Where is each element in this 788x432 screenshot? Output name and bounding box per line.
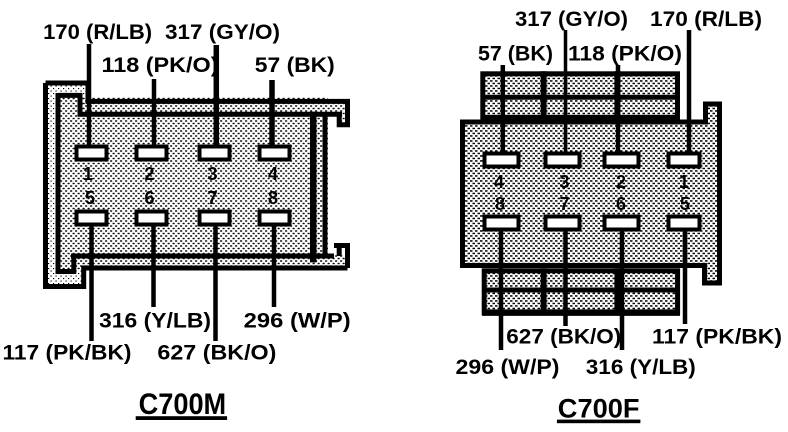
pin 1 (C700F) bbox=[669, 154, 700, 167]
pin 3 (C700F) bbox=[546, 154, 580, 167]
pin 4 (C700F) bbox=[485, 154, 519, 167]
wire pin 7 to 627 (BK/O) (C700F) bbox=[563, 230, 568, 326]
svg-text:2: 2 bbox=[616, 172, 626, 192]
pin 8 (C700F) bbox=[485, 217, 519, 230]
wire 118 (PK/O) to pin 2 bbox=[152, 79, 157, 147]
svg-text:316 (Y/LB): 316 (Y/LB) bbox=[99, 310, 211, 333]
wire pin 8 to 296 (W/P) (C700F) bbox=[499, 230, 504, 350]
wire 57 (BK) to pin 4 bbox=[269, 80, 275, 147]
svg-text:4: 4 bbox=[268, 164, 278, 184]
svg-text:4: 4 bbox=[494, 172, 504, 192]
pin 1 (C700M) bbox=[77, 147, 107, 160]
svg-text:1: 1 bbox=[679, 172, 689, 192]
pin 8 (C700M) bbox=[260, 212, 290, 225]
svg-text:5: 5 bbox=[85, 188, 95, 208]
svg-text:8: 8 bbox=[268, 188, 278, 208]
svg-text:5: 5 bbox=[680, 194, 690, 214]
wire pin 5 to 117 (PK/BK) bbox=[89, 225, 94, 341]
wire 118 (PK/O) to pin 2 (C700F) bbox=[616, 65, 621, 153]
pin 7 (C700F) bbox=[546, 217, 580, 230]
svg-text:1: 1 bbox=[83, 164, 93, 184]
wire pin 8 to 296 (W/P) bbox=[272, 225, 277, 307]
svg-text:2: 2 bbox=[144, 164, 154, 184]
svg-text:316 (Y/LB): 316 (Y/LB) bbox=[586, 356, 696, 379]
svg-text:7: 7 bbox=[559, 194, 569, 214]
pin 2 (C700F) bbox=[605, 154, 639, 167]
svg-text:627 (BK/O): 627 (BK/O) bbox=[157, 342, 276, 365]
wire pin 7 to 627 (BK/O) bbox=[213, 225, 218, 341]
svg-text:296 (W/P): 296 (W/P) bbox=[456, 356, 560, 379]
pin 6 (C700F) bbox=[605, 217, 639, 230]
connector C700F body with lock tab bbox=[463, 104, 720, 283]
svg-text:8: 8 bbox=[495, 194, 505, 214]
pin 2 (C700M) bbox=[137, 147, 167, 160]
wire 57 (BK) to pin 4 (C700F) bbox=[501, 65, 506, 153]
pin 3 (C700M) bbox=[200, 147, 230, 160]
svg-text:170 (R/LB): 170 (R/LB) bbox=[650, 8, 762, 31]
svg-text:57 (BK): 57 (BK) bbox=[255, 54, 335, 77]
connector C700M outer shell bbox=[45, 83, 348, 287]
connector C700F rear grid top bbox=[483, 71, 678, 120]
wire 170 (R/LB) to pin 1 bbox=[87, 44, 92, 147]
pin 4 (C700M) bbox=[260, 147, 290, 160]
wire 317 (GY/O) to pin 3 bbox=[214, 45, 220, 147]
underline C700F bbox=[557, 420, 641, 424]
svg-text:C700F: C700F bbox=[558, 394, 640, 424]
svg-text:627 (BK/O): 627 (BK/O) bbox=[506, 326, 621, 349]
svg-text:7: 7 bbox=[207, 188, 217, 208]
svg-text:118 (PK/O): 118 (PK/O) bbox=[102, 54, 219, 77]
wire 317 (GY/O) to pin 3 (C700F) bbox=[564, 30, 568, 153]
svg-text:296 (W/P): 296 (W/P) bbox=[244, 310, 351, 333]
svg-text:3: 3 bbox=[559, 172, 569, 192]
svg-text:57 (BK): 57 (BK) bbox=[478, 43, 553, 66]
wire pin 6 to 316 (Y/LB) bbox=[151, 225, 156, 307]
svg-text:317 (GY/O): 317 (GY/O) bbox=[165, 21, 280, 44]
wire 170 (R/LB) to pin 1 (C700F) bbox=[687, 30, 692, 153]
wire pin 6 to 316 (Y/LB) (C700F) bbox=[620, 230, 625, 350]
svg-text:118 (PK/O): 118 (PK/O) bbox=[568, 43, 682, 66]
pin 5 (C700M) bbox=[77, 212, 107, 225]
underline C700M bbox=[136, 416, 227, 420]
C700M pin cavity right edge bbox=[310, 112, 317, 263]
pin 5 (C700F) bbox=[669, 217, 700, 230]
pin 6 (C700M) bbox=[137, 212, 167, 225]
pin 7 (C700M) bbox=[200, 212, 230, 225]
C700M inner shroud wall bbox=[58, 93, 342, 272]
svg-text:117 (PK/BK): 117 (PK/BK) bbox=[3, 342, 132, 365]
svg-text:3: 3 bbox=[207, 164, 217, 184]
svg-text:6: 6 bbox=[144, 188, 154, 208]
svg-text:117 (PK/BK): 117 (PK/BK) bbox=[652, 326, 782, 349]
wire pin 5 to 117 (PK/BK) (C700F) bbox=[683, 230, 688, 324]
svg-text:6: 6 bbox=[616, 194, 626, 214]
svg-text:317 (GY/O): 317 (GY/O) bbox=[515, 8, 628, 31]
connector C700F rear grid bottom bbox=[482, 268, 680, 312]
svg-text:170 (R/LB): 170 (R/LB) bbox=[43, 21, 152, 44]
